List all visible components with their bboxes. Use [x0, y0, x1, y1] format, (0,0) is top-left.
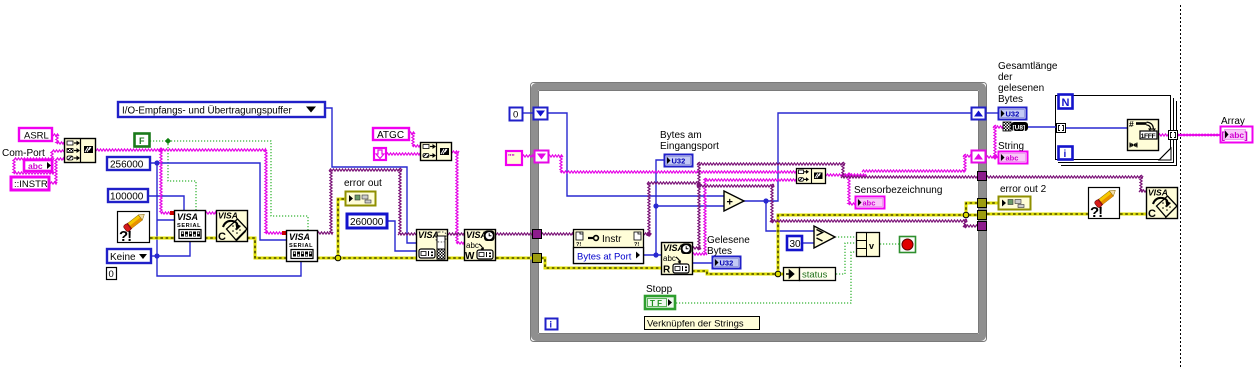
svg-text:+: +: [727, 197, 733, 209]
array of strings indicator Array: [1221, 127, 1253, 143]
greater or equal function: [814, 226, 835, 248]
svg-text:abc: abc: [663, 254, 676, 263]
svg-text:VISA: VISA: [177, 212, 198, 222]
svg-text:[U8]: [U8]: [1013, 125, 1026, 132]
numeric constant 0 (lower left): [107, 268, 117, 281]
wire: 260000 to VISA buffer: [387, 221, 416, 251]
wavy terminal frame around Com-Port control: [13, 158, 54, 174]
svg-text:?!: ?!: [1090, 204, 1102, 221]
wire: dark purple VISA resource: serial2 out, detour to buffer block: [317, 168, 416, 235]
svg-text:SERIAL: SERIAL: [289, 243, 313, 249]
svg-text:abc: abc: [466, 241, 479, 250]
svg-text:error out: error out: [344, 178, 382, 189]
junction: green diamond at F branch: [165, 138, 171, 144]
string constant ::INSTR: [11, 177, 49, 190]
svg-text:Gesamtlänge: Gesamtlänge: [998, 61, 1058, 72]
svg-text:i: i: [1064, 149, 1067, 160]
svg-text:?!: ?!: [634, 242, 639, 248]
property node Instr / Bytes at Port: [574, 230, 644, 264]
empty string constant: [506, 151, 522, 165]
svg-text:ATGC: ATGC: [377, 130, 404, 141]
svg-text:Eingangsport: Eingangsport: [660, 141, 719, 152]
free label Verknuepfen der Strings: [645, 317, 760, 330]
U32 indicator Bytes am Eingangsport: [665, 155, 693, 167]
svg-text:100000: 100000: [110, 192, 144, 203]
shift register right pink: [972, 151, 986, 163]
svg-text:U32: U32: [1006, 110, 1020, 119]
string constant ATGC: [373, 128, 409, 141]
clear errors VI 1: [118, 211, 150, 245]
wire: pink SR out to String indicator and U8: [986, 125, 1003, 158]
tunnel olive right border 2: [978, 211, 987, 220]
svg-text:260000: 260000: [350, 217, 384, 228]
ring constant Keine: [107, 249, 151, 263]
wire: array of strings beaded to Array indicator: [1178, 134, 1220, 137]
junction: blue dot 256000: [154, 160, 159, 165]
for loop output tunnel: [1169, 131, 1178, 140]
wire: green boolean F net (dotted): [150, 141, 308, 230]
compound OR node: [857, 233, 880, 257]
svg-text:VISA: VISA: [289, 232, 310, 242]
while loop: [531, 83, 987, 342]
svg-text:gelesenen: gelesenen: [998, 83, 1044, 94]
svg-text:256000: 256000: [110, 160, 144, 171]
numeric constant 30: [787, 236, 802, 250]
svg-text:VISA: VISA: [466, 230, 487, 240]
unbundle by name status: [784, 268, 836, 281]
svg-text:U32: U32: [720, 259, 734, 268]
carriage return constant: [374, 148, 386, 160]
svg-text:F: F: [139, 136, 145, 146]
svg-text:SERIAL: SERIAL: [177, 223, 201, 229]
wire: property node Bytes at Port output: [644, 160, 724, 255]
wire: 100000 to VISA serial 1 top: [148, 196, 184, 210]
svg-text:Verknüpfen der Strings: Verknüpfen der Strings: [647, 319, 744, 330]
shift register left blue: [534, 108, 548, 120]
svg-text:0: 0: [513, 110, 518, 121]
svg-text:ASRL: ASRL: [24, 131, 49, 142]
svg-text:VISA: VISA: [418, 230, 439, 240]
wire: pink string concat1 output net: [96, 149, 284, 234]
string control Com-Port (abc): [24, 160, 52, 171]
svg-text:1FFF: 1FFF: [1141, 133, 1156, 140]
boolean constant F: [135, 134, 150, 147]
svg-text:?!: ?!: [576, 242, 581, 248]
svg-text:abc: abc: [1006, 154, 1019, 163]
wire: purple property node ref out loop: [644, 162, 1148, 250]
junction: purple diamonds: [646, 231, 652, 237]
numeric constant 260000: [347, 214, 387, 228]
svg-text:R: R: [663, 265, 671, 276]
wire: purple buffer to write: [448, 233, 464, 235]
svg-text:VISA: VISA: [1148, 188, 1168, 198]
concatenate strings 2: [421, 143, 452, 161]
clear errors VI 2: [1089, 187, 1120, 221]
numeric constant 0 (loop init): [510, 108, 523, 121]
concatenate strings 1: [65, 139, 96, 163]
wire: ASRL / Com-Port / INSTR into concat1: [50, 134, 64, 184]
ring constant I/O-Empfangs: [118, 102, 325, 117]
svg-text:U32: U32: [672, 157, 686, 166]
for loop input tunnel: [1057, 124, 1066, 133]
svg-text:i: i: [550, 320, 553, 330]
svg-text:0: 0: [109, 269, 114, 280]
error out 2 cluster indicator: [999, 197, 1031, 210]
svg-text:30: 30: [790, 239, 802, 250]
svg-text:v: v: [869, 241, 874, 251]
U32 indicator Gelesene Bytes: [713, 257, 741, 269]
string to byte array U8: [1003, 122, 1028, 132]
svg-text:VISA: VISA: [663, 243, 684, 253]
svg-text:T F: T F: [650, 299, 662, 308]
error out cluster indicator: [346, 192, 376, 206]
svg-text:Com-Port: Com-Port: [2, 148, 45, 159]
svg-text:Stopp: Stopp: [646, 284, 673, 295]
VISA close 2: [1147, 188, 1178, 221]
shift register left pink: [535, 151, 549, 163]
svg-text:I/O-Empfangs- und Übertragungs: I/O-Empfangs- und Übertragungspuffer: [122, 106, 292, 117]
wire: concat3 output to Sensorbezeichnung and pink SR right: [826, 154, 971, 205]
wire: inside for loop to 1FF: [1064, 127, 1127, 129]
svg-text:?!: ?!: [119, 228, 131, 245]
shift register right blue: [972, 108, 986, 120]
wire: concat2 output down to VISA write: [452, 151, 464, 244]
wire: ATGC to concat2: [386, 132, 420, 155]
svg-text:N: N: [1062, 97, 1070, 109]
string constant ASRL: [19, 128, 52, 142]
svg-text:Array: Array: [1221, 116, 1245, 127]
VISA read: [662, 243, 693, 276]
VISA set IO buffer size: [417, 230, 448, 261]
svg-text:VISA: VISA: [218, 211, 238, 221]
wire: purple branch to lower-right tunnel: [697, 184, 980, 228]
byte array to string 1FF: [1128, 119, 1159, 151]
concatenate strings 3: [797, 169, 826, 184]
svg-text:status: status: [802, 270, 828, 281]
wire: pink SR to concat3 row1: [548, 155, 796, 173]
svg-text:Bytes: Bytes: [998, 94, 1023, 105]
svg-text:Sensorbezeichnung: Sensorbezeichnung: [854, 185, 942, 196]
svg-text:error out 2: error out 2: [1000, 184, 1047, 195]
svg-text:Keine: Keine: [110, 252, 136, 263]
abc indicator String: [999, 152, 1028, 164]
tunnel purple right border lower: [978, 222, 987, 231]
boolean TF Stopp: [645, 296, 675, 309]
wire: blue ring const to VISA buffer block: [325, 108, 416, 243]
stop button: [900, 237, 916, 253]
VISA write: [465, 230, 496, 263]
VISA configure serial port 1: [175, 211, 206, 242]
wire: blue SR out to Gesamtlaenge U32: [984, 112, 998, 114]
junction: pink diamond: [158, 147, 164, 153]
wire: VISA serial 1 to VISA close 1: [205, 212, 216, 214]
svg-text:]: ]: [1245, 131, 1248, 142]
VISA close 1: [217, 211, 248, 244]
svg-text:String: String: [998, 141, 1024, 152]
abc indicator Sensorbezeichnung: [856, 197, 885, 209]
dashed page boundary: [1180, 5, 1182, 367]
wire: error cluster yellow/black main run: [150, 199, 1146, 274]
svg-text:#: #: [1129, 119, 1134, 129]
svg-text:Bytes at Port: Bytes at Port: [577, 252, 632, 263]
for loop iteration terminal i: [1059, 147, 1073, 161]
svg-text:abc: abc: [863, 199, 876, 208]
wire: VISA read buffer to concat3 row2: [692, 178, 796, 255]
tunnel olive right border 1: [978, 199, 987, 208]
tunnel purple right border (string out): [978, 172, 987, 181]
svg-text:Bytes: Bytes: [707, 246, 732, 257]
wire: 256000 baud net: [150, 163, 301, 276]
junction: blue dot Keine: [154, 253, 159, 258]
numeric constant 256000: [107, 157, 150, 171]
tunnel purple left border: [533, 230, 542, 239]
for loop: [1056, 96, 1177, 166]
svg-text:abc: abc: [1230, 130, 1245, 140]
svg-text:der: der: [998, 72, 1013, 83]
wire: 1FF to for-loop tunnel: [1158, 134, 1169, 136]
wire: blue shift register to add (sum loop): [548, 113, 724, 196]
VISA configure serial port 2: [287, 231, 318, 262]
svg-text:C: C: [218, 231, 226, 243]
svg-text:C: C: [1148, 208, 1156, 220]
add function: [724, 191, 744, 211]
svg-text:Gelesene: Gelesene: [707, 235, 750, 246]
wire: U8 array to for loop: [1027, 126, 1057, 128]
junction: error wire circles: [335, 255, 341, 261]
iteration terminal i: [546, 319, 558, 330]
svg-text:W: W: [465, 251, 475, 262]
red coercion dots on VISA serial inputs: [170, 211, 174, 215]
numeric constant 100000: [108, 189, 148, 203]
wire: VISA read count to Gelesene Bytes: [692, 262, 712, 264]
U32 indicator Gesamtlaenge: [999, 108, 1027, 120]
tunnel olive left border: [533, 254, 542, 263]
wire: purple write to loop tunnel and property node: [496, 233, 533, 235]
svg-text:Instr: Instr: [602, 234, 622, 245]
svg-text:::INSTR: ::INSTR: [14, 179, 48, 190]
wire: 0 into left shift register: [522, 112, 533, 114]
wire: add output to right shift register and comparison: [744, 113, 971, 243]
for loop count terminal N: [1059, 95, 1073, 110]
wire: empty string into pink shift register: [522, 155, 533, 157]
svg-text:abc: abc: [28, 161, 43, 171]
svg-text:"": "": [508, 154, 515, 161]
svg-text:Bytes am: Bytes am: [660, 130, 702, 141]
wire: green dotted comparison to OR to stop: [676, 237, 899, 303]
